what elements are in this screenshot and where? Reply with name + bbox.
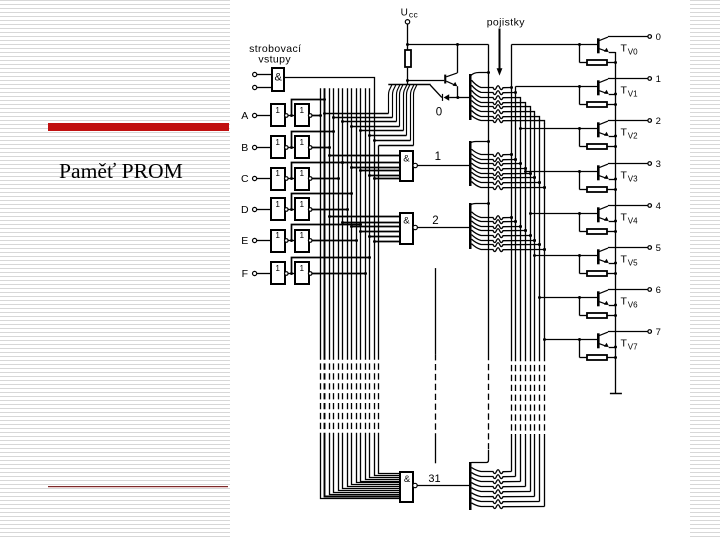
input terminal B bbox=[241, 142, 271, 154]
resistor R1 (word line pull-up) bbox=[405, 45, 411, 86]
transistor TV5 bbox=[597, 248, 648, 265]
resistor R TV5 bbox=[580, 256, 618, 277]
label TV1 bbox=[621, 85, 639, 99]
fuse word31 bit2 bbox=[472, 478, 521, 484]
svg-text:C: C bbox=[241, 173, 249, 185]
word 0 bar hook to supply bbox=[471, 73, 489, 76]
label word 2 bbox=[432, 215, 438, 227]
word-select bus line 13 bbox=[379, 146, 401, 474]
Ucc rail wire bbox=[406, 43, 489, 46]
wire A true output to bus bbox=[312, 114, 322, 117]
gate U31 address decoder AND (word 31) bbox=[400, 472, 417, 502]
word-select bus line 10 bbox=[366, 88, 401, 479]
bit line 5 bbox=[533, 114, 536, 497]
multi-emitter emitter 3 to bus line 7 bbox=[350, 85, 403, 128]
output terminal 0 bbox=[648, 32, 661, 43]
svg-text:T: T bbox=[621, 127, 628, 139]
slide title bbox=[59, 159, 279, 184]
fuse word0 bit6 bbox=[472, 111, 540, 120]
fuse word1 bit2 bbox=[472, 158, 523, 165]
multi-emitter emitter 7 to bus line 13 bbox=[379, 85, 417, 146]
svg-text:1: 1 bbox=[275, 200, 280, 209]
label TV5 bbox=[621, 254, 639, 268]
strobe input terminal 1 bbox=[253, 72, 273, 76]
fuse word1 bit0 bbox=[472, 149, 514, 156]
svg-text:31: 31 bbox=[428, 473, 440, 485]
svg-text:1: 1 bbox=[300, 138, 305, 147]
svg-text:1: 1 bbox=[300, 200, 305, 209]
fuse word0 bit2 bbox=[472, 90, 521, 100]
svg-text:vstupy: vstupy bbox=[258, 53, 291, 65]
gate U1 address decoder AND bbox=[400, 151, 417, 181]
inverter A2 (box 2) bbox=[295, 104, 312, 126]
multi-emitter emitter 6 to bus line 12 bbox=[373, 85, 414, 142]
fuse word0 bit4 bbox=[472, 100, 531, 109]
word-select bus line 5 bbox=[343, 88, 401, 488]
word-select bus line 2 bbox=[330, 88, 401, 494]
label word 0 bbox=[436, 106, 442, 118]
fuse word2 bit6 bbox=[472, 239, 542, 246]
wire D true output to bus bbox=[312, 208, 349, 211]
label TV0 bbox=[621, 43, 639, 57]
wire bit line 4 to TV4 base bbox=[531, 212, 598, 215]
wire gate 2 output to word 2 fuse bar bbox=[417, 227, 469, 229]
word-select bus line 11 bbox=[370, 88, 401, 477]
word-select bus line 8 bbox=[357, 88, 401, 482]
gate 1 input stubs bbox=[328, 154, 400, 180]
fuse word2 bit7 bbox=[472, 244, 547, 252]
word-select bus line 1 bbox=[325, 88, 401, 496]
svg-text:1: 1 bbox=[300, 169, 305, 178]
inverter E2 (box 2) bbox=[295, 230, 312, 252]
inverter F2 (box 2) bbox=[295, 262, 312, 284]
wire gate 1 output to word 1 fuse bar bbox=[417, 165, 469, 167]
ground symbol bbox=[610, 393, 622, 395]
fuse word0 bit0 bbox=[472, 80, 514, 89]
word line continuation (dashed) bbox=[435, 268, 437, 463]
bit line 1 bbox=[514, 87, 517, 477]
wire bit line 7 to TV7 base bbox=[545, 338, 598, 341]
svg-text:&: & bbox=[275, 71, 283, 83]
fuse word1 bit5 bbox=[472, 172, 537, 179]
svg-text:E: E bbox=[241, 235, 248, 247]
bit line 3 bbox=[524, 105, 527, 487]
fuse word0 bit3 bbox=[472, 95, 526, 105]
fuse word0 bit1 bbox=[472, 85, 518, 94]
input terminal A bbox=[241, 110, 271, 122]
svg-text:A: A bbox=[241, 110, 248, 122]
strobe input terminal 2 bbox=[253, 85, 273, 89]
transistor TV6 bbox=[597, 290, 648, 307]
svg-text:1: 1 bbox=[275, 231, 280, 240]
label TV6 bbox=[621, 296, 639, 310]
word 1 fuse bar bbox=[469, 141, 472, 186]
fuse word2 bit5 bbox=[472, 235, 537, 243]
wire bit line 1 to TV1 base bbox=[516, 85, 598, 88]
wire B complement riser to bus bbox=[290, 130, 335, 149]
svg-text:5: 5 bbox=[656, 243, 661, 254]
svg-text:V4: V4 bbox=[628, 217, 638, 226]
label TV7 bbox=[621, 338, 639, 352]
wire F complement riser to bus bbox=[290, 256, 371, 275]
multi-emitter emitter 4 to bus line 9 bbox=[359, 85, 407, 132]
label TV4 bbox=[621, 212, 639, 226]
diode D0 bbox=[442, 94, 458, 101]
svg-text:V5: V5 bbox=[628, 259, 638, 268]
svg-text:T: T bbox=[621, 212, 628, 224]
output terminal 1 bbox=[648, 74, 661, 85]
wire A complement riser to bus bbox=[290, 98, 326, 117]
inverter A1 (box 1) bbox=[271, 104, 295, 126]
word-select bus line 7 bbox=[352, 88, 401, 484]
svg-text:2: 2 bbox=[656, 116, 661, 127]
wire E true output to bus bbox=[312, 239, 358, 242]
inverter F1 (box 1) bbox=[271, 262, 295, 284]
word-select bus line 0 bbox=[321, 88, 401, 498]
transistor TV4 bbox=[597, 206, 648, 223]
svg-text:U: U bbox=[401, 8, 408, 19]
emitter ground rail bbox=[615, 52, 617, 394]
word 1 bar hook to supply bbox=[470, 142, 488, 144]
bit line 4 bbox=[529, 109, 532, 492]
svg-text:B: B bbox=[241, 142, 248, 154]
red title bar bbox=[48, 123, 229, 132]
wire bit line 5 to TV5 base bbox=[535, 254, 598, 257]
resistor R TV0 bbox=[580, 45, 618, 66]
transistor TV2 bbox=[597, 121, 648, 138]
svg-text:1: 1 bbox=[300, 231, 305, 240]
wire bit line 6 to TV6 base bbox=[540, 296, 598, 299]
wire C complement riser to bus bbox=[290, 161, 344, 180]
input terminal D bbox=[241, 204, 271, 216]
thin red divider line bbox=[48, 486, 228, 487]
svg-text:T: T bbox=[621, 43, 628, 55]
fuse word31 bit5 bbox=[472, 493, 535, 499]
word 31 fuse bar bbox=[469, 462, 472, 510]
wire F true output to bus bbox=[312, 272, 367, 275]
word-select bus line 3 bbox=[334, 88, 401, 492]
word 2 fuse bar bbox=[469, 203, 472, 249]
word-select bus line 4 bbox=[339, 88, 401, 490]
svg-text:7: 7 bbox=[656, 327, 661, 338]
label pojistky (fuses) bbox=[487, 17, 526, 76]
svg-text:0: 0 bbox=[656, 32, 661, 43]
transistor TV7 bbox=[597, 332, 648, 349]
transistor TV3 bbox=[597, 164, 648, 181]
wire C true output to bus bbox=[312, 177, 340, 180]
inverter B1 (box 1) bbox=[271, 136, 295, 158]
inverter D2 (box 2) bbox=[295, 198, 312, 220]
wire bit line 0 to TV0 base bbox=[512, 43, 598, 46]
white diagram panel bbox=[230, 0, 690, 540]
input terminal E bbox=[241, 235, 271, 247]
word-select bus line 12 bbox=[375, 354, 401, 476]
svg-text:1: 1 bbox=[275, 106, 280, 115]
fuse word2 bit1 bbox=[472, 216, 518, 223]
svg-text:T: T bbox=[621, 170, 628, 182]
fuse word2 bit4 bbox=[472, 230, 533, 238]
input terminal F bbox=[242, 268, 271, 280]
bit line 2 bbox=[519, 100, 522, 482]
transistor TV1 bbox=[597, 79, 648, 96]
word 2 bar hook to supply bbox=[470, 204, 488, 206]
svg-text:cc: cc bbox=[409, 10, 419, 20]
fuse word1 bit1 bbox=[472, 154, 518, 162]
inverter B2 (box 2) bbox=[295, 136, 312, 158]
fuse word31 bit7 bbox=[472, 503, 545, 509]
fuse word1 bit3 bbox=[472, 163, 528, 170]
multi-emitter emitter 5 to bus line 11 bbox=[368, 85, 410, 137]
svg-text:1: 1 bbox=[300, 264, 305, 273]
fuse word2 bit3 bbox=[472, 226, 528, 233]
resistor R TV2 bbox=[580, 129, 618, 150]
word 0 fuse bar bbox=[469, 74, 472, 120]
wire gate 31 output to word 31 fuse bar bbox=[417, 485, 469, 487]
wire Q0 base bbox=[408, 80, 445, 82]
resistor R TV7 bbox=[580, 340, 618, 361]
multi-emitter collector stroke bbox=[430, 85, 442, 98]
svg-text:1: 1 bbox=[435, 151, 441, 163]
label word 1 bbox=[435, 151, 441, 163]
fuse word0 bit5 bbox=[472, 106, 535, 115]
gate U2 address decoder AND bbox=[400, 213, 417, 244]
inverter C2 (box 2) bbox=[295, 168, 312, 190]
svg-text:&: & bbox=[404, 474, 411, 485]
inverter D1 (box 1) bbox=[271, 198, 295, 220]
gate 2 input stubs bbox=[328, 215, 400, 243]
output terminal 6 bbox=[648, 285, 661, 296]
transistor TV0 bbox=[597, 37, 648, 54]
wire bit line 2 to TV2 base bbox=[521, 127, 598, 130]
svg-text:2: 2 bbox=[432, 215, 438, 227]
multi-emitter emitter 0 to bus line 1 bbox=[323, 85, 392, 115]
resistor R TV3 bbox=[580, 172, 618, 193]
fuse word1 bit6 bbox=[472, 177, 542, 185]
svg-text:T: T bbox=[621, 296, 628, 308]
svg-text:3: 3 bbox=[656, 159, 661, 170]
output terminal 5 bbox=[648, 243, 661, 254]
svg-text:1: 1 bbox=[656, 74, 661, 85]
fuse word31 bit3 bbox=[472, 483, 526, 489]
svg-text:4: 4 bbox=[656, 201, 661, 212]
fuse word1 bit4 bbox=[472, 168, 533, 176]
label TV3 bbox=[621, 170, 639, 184]
svg-text:F: F bbox=[242, 268, 248, 280]
svg-text:T: T bbox=[621, 254, 628, 266]
gate U1 strobe AND (&) bbox=[272, 68, 284, 91]
svg-text:1: 1 bbox=[275, 169, 280, 178]
bit line 6 bbox=[538, 119, 541, 502]
svg-text:&: & bbox=[403, 215, 410, 226]
fuse word31 bit1 bbox=[472, 473, 516, 479]
fuse word1 bit7 bbox=[472, 182, 547, 190]
resistor R TV4 bbox=[580, 214, 618, 235]
output terminal 7 bbox=[648, 327, 661, 338]
word-select bus line 9 bbox=[361, 88, 401, 481]
output terminal 2 bbox=[648, 116, 661, 127]
transistor Q0 (word 0 driver) bbox=[444, 45, 459, 100]
svg-text:&: & bbox=[403, 153, 410, 164]
svg-text:V3: V3 bbox=[628, 175, 638, 184]
wire Q0 emitter to word-0 fuse bar bbox=[458, 97, 469, 99]
fuse word2 bit2 bbox=[472, 221, 523, 229]
fuse word31 bit0 bbox=[472, 468, 512, 474]
resistor R TV1 bbox=[580, 87, 618, 108]
word-select bus line 6 bbox=[348, 88, 401, 486]
output terminal 3 bbox=[648, 159, 661, 170]
fuse supply line (Ucc rail down to fuse bars) bbox=[472, 45, 491, 463]
svg-text:V0: V0 bbox=[628, 48, 638, 57]
fuse word31 bit4 bbox=[472, 488, 531, 494]
svg-text:T: T bbox=[621, 338, 628, 350]
svg-text:V2: V2 bbox=[628, 132, 638, 141]
svg-text:V6: V6 bbox=[628, 301, 638, 310]
bit line 7 bbox=[543, 123, 546, 507]
label TV2 bbox=[621, 127, 639, 141]
svg-text:1: 1 bbox=[300, 106, 305, 115]
wire bit line 3 to TV3 base bbox=[526, 170, 598, 173]
svg-text:1: 1 bbox=[275, 264, 280, 273]
wire B true output to bus bbox=[312, 146, 331, 149]
fuse word2 bit0 bbox=[472, 212, 514, 220]
multi-emitter transistor base bar (word 0) bbox=[388, 84, 430, 86]
svg-text:V1: V1 bbox=[628, 90, 638, 99]
inverter C1 (box 1) bbox=[271, 168, 295, 190]
svg-text:T: T bbox=[621, 85, 628, 97]
bit line 0 bbox=[510, 45, 513, 472]
resistor R TV6 bbox=[580, 298, 618, 319]
svg-text:V7: V7 bbox=[628, 343, 638, 352]
label word 31 bbox=[428, 473, 440, 485]
multi-emitter emitter 2 to bus line 5 bbox=[341, 85, 400, 123]
fuse word0 bit7 bbox=[472, 116, 545, 124]
multi-emitter emitter 1 to bus line 3 bbox=[332, 85, 396, 119]
svg-text:1: 1 bbox=[275, 138, 280, 147]
wire D complement riser to bus bbox=[290, 192, 353, 211]
svg-text:6: 6 bbox=[656, 285, 661, 296]
fuse word31 bit6 bbox=[472, 498, 540, 504]
svg-text:0: 0 bbox=[436, 106, 442, 118]
wire strobe output to word-select bus line 12 bbox=[284, 78, 374, 354]
output terminal 4 bbox=[648, 201, 661, 212]
text label strobovaci vstupy bbox=[249, 43, 301, 65]
Ucc supply terminal bbox=[401, 8, 419, 45]
svg-text:D: D bbox=[241, 204, 249, 216]
inverter E1 (box 1) bbox=[271, 230, 295, 252]
input terminal C bbox=[241, 173, 271, 185]
wire E complement riser to bus bbox=[290, 223, 362, 242]
svg-text:pojistky: pojistky bbox=[487, 17, 526, 29]
